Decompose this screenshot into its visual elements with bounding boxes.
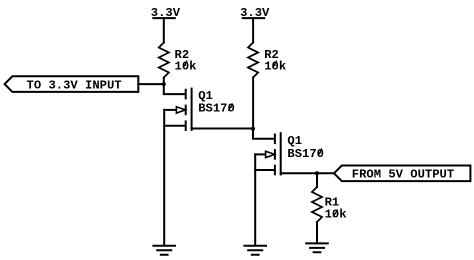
wire flag1 to node A xyxy=(138,83,164,85)
transistor Q1 right: body arrow xyxy=(266,151,275,157)
ground 3 xyxy=(306,243,328,252)
wire Q1-right source/body rail to ground xyxy=(254,154,256,245)
transistor Q1 right: source stub xyxy=(255,169,273,171)
svg-text:10k: 10k xyxy=(175,59,197,73)
wire R2a to node A xyxy=(163,78,165,85)
wire R2b to node B xyxy=(252,78,254,129)
wire Q1-left gate to node B xyxy=(192,128,253,130)
wire power1 to R2a xyxy=(163,18,165,42)
wire Q1-right gate to node C xyxy=(281,172,334,174)
resistor R2 (right) xyxy=(248,43,258,78)
transistor Q1 left: drain channel dash xyxy=(185,90,187,99)
transistor Q1 left: gate bar xyxy=(191,89,193,130)
wire power2 to R2b xyxy=(252,18,254,42)
wire Q1-left source/body rail to ground xyxy=(163,110,165,245)
transistor Q1 left: body lead xyxy=(164,109,176,111)
ground 1 xyxy=(153,246,175,255)
node B junction dot xyxy=(251,127,255,131)
transistor Q1 left: source stub xyxy=(164,125,184,127)
svg-text:Q1: Q1 xyxy=(287,134,302,148)
transistor Q1 right: body dash xyxy=(274,150,276,159)
power 3.3V rail 2 bar xyxy=(243,17,265,19)
transistor Q1 right: source channel dash xyxy=(274,166,276,175)
node C junction dot xyxy=(315,171,319,175)
power 3.3V rail 1 bar xyxy=(153,17,175,19)
svg-text:TO 3.3V INPUT: TO 3.3V INPUT xyxy=(27,78,122,92)
transistor Q1 left: drain wire+stub xyxy=(164,84,184,94)
slashed zero marks xyxy=(183,61,337,216)
resistor R2 (left) xyxy=(159,43,169,78)
transistor Q1 left: source channel dash xyxy=(185,121,187,130)
node A junction dot xyxy=(162,82,166,86)
transistor Q1 right: drain wire+stub xyxy=(253,129,273,139)
resistor R1 xyxy=(312,187,322,222)
transistor Q1 right: gate bar xyxy=(280,133,282,174)
svg-text:10k: 10k xyxy=(264,59,286,73)
svg-text:FROM 5V OUTPUT: FROM 5V OUTPUT xyxy=(352,168,454,182)
wire R1 to ground xyxy=(316,222,318,243)
svg-text:10k: 10k xyxy=(325,208,347,222)
wire node C to R1 xyxy=(316,173,318,187)
transistor Q1 left: body dash xyxy=(185,106,187,115)
flag FROM 5V OUTPUT outline xyxy=(334,166,470,182)
transistor Q1 right: drain channel dash xyxy=(274,135,276,144)
ground 2 xyxy=(244,246,266,255)
transistor Q1 right: body lead xyxy=(255,153,266,155)
flag TO 3.3V INPUT outline xyxy=(5,76,139,92)
transistor Q1 left: body arrow xyxy=(176,107,185,113)
